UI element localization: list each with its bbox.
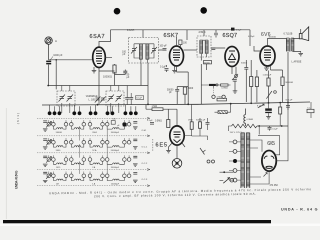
wire 6E5 down (169, 143, 186, 158)
wires V3 bottom area (246, 60, 257, 102)
svg-text:UNDA - R. 64 G: UNDA - R. 64 G (15, 170, 19, 189)
svg-text:1 MΩ: 1 MΩ (217, 97, 223, 99)
wire cathode resistor (268, 71, 270, 103)
tube V3 6SQ7 (225, 47, 239, 67)
wires gang area (62, 86, 131, 114)
bottom black bar (3, 220, 271, 223)
row 2 left ground (43, 147, 48, 149)
svg-text:(6/1): (6/1) (16, 113, 20, 125)
row 4 left capacitor (43, 172, 47, 174)
row 4 right ground (133, 180, 138, 182)
wires hatched resistor (215, 104, 231, 113)
row 2 wiper arrow (46, 139, 51, 145)
row 2 contact ticks (49, 138, 129, 141)
wire V1 cathode (94, 64, 125, 104)
row 1 right resistor box (111, 121, 115, 125)
tube V1 6SA7 (93, 47, 106, 67)
wire volume (232, 67, 236, 91)
wire mains in (220, 172, 234, 180)
row 4 left ground (43, 180, 48, 182)
ground under V1 (92, 71, 97, 73)
PU contact circle (216, 84, 218, 86)
svg-text:50000µF: 50000µF (111, 150, 120, 152)
wire IF2 to V3 (201, 48, 225, 105)
black blob component on top wire (231, 28, 235, 31)
tuning gang section 1 dashed box (57, 91, 75, 106)
svg-text:1.000 µF: 1.000 µF (263, 75, 272, 77)
svg-text:5400Ω: 5400Ω (56, 132, 63, 134)
IF1 secondary winding (146, 44, 149, 60)
resistor 1 Mohm PSU top (217, 98, 227, 101)
tube V2 6SK7 (170, 46, 184, 66)
B+ top wire (99, 30, 250, 47)
row 4 right capacitor (133, 173, 137, 175)
tube V5 6E5 (170, 126, 184, 145)
resistor 0.5M PU (221, 84, 228, 86)
pilot lamp (172, 159, 182, 169)
row 2 right ground (133, 147, 138, 149)
resistor 0.5 Mohm (167, 120, 170, 128)
resistor 1 Mohm horizontal 6E5 (152, 108, 163, 111)
svg-text:50000: 50000 (241, 63, 248, 65)
wire 6E5 grid (146, 104, 177, 125)
svg-text:6SA7: 6SA7 (90, 34, 105, 40)
svg-text:30000µF: 30000µF (111, 167, 120, 169)
transformer primary winding (241, 133, 244, 188)
wire V4 plate to OT (254, 39, 287, 52)
svg-text:500 pF: 500 pF (286, 100, 293, 102)
svg-text:110 V. 125 V.: 110 V. 125 V. (230, 132, 243, 134)
gang1 variable capacitor b (67, 95, 74, 102)
svg-text:52 A: 52 A (92, 149, 97, 152)
IF1 internal wires (134, 44, 154, 63)
wire V4 cathode (267, 66, 283, 102)
primary tap circles (233, 140, 237, 182)
switch row 3 contacts (47, 158, 131, 162)
row 2 coil brackets (53, 144, 124, 147)
row 3 left capacitor (43, 156, 47, 158)
resistor 50000 box (204, 61, 212, 64)
row 3 wiper arrow (46, 157, 51, 163)
row 1 right cap and ground (133, 122, 138, 130)
ground bus wire (42, 102, 310, 105)
ground volume (233, 91, 238, 93)
resistor 250000 (250, 77, 253, 87)
switch arrow below 6X5 (264, 173, 268, 177)
node B+ rail junctions (258, 125, 282, 127)
row 3 pair wire (50, 159, 52, 161)
wires 6X5 (250, 102, 288, 184)
node antenna bus (47, 85, 49, 87)
row 3 left ground (43, 164, 48, 166)
speaker (299, 27, 308, 41)
B+ rail zigzag resistor (232, 124, 258, 128)
ground under V2 (172, 71, 177, 73)
svg-text:0.5µF: 0.5µF (236, 30, 242, 32)
svg-text:10000Ω: 10000Ω (103, 76, 112, 79)
capacitor 0.1uF V2 (165, 69, 169, 71)
svg-text:1MΩ: 1MΩ (188, 120, 193, 122)
capacitor 50uF cathode (123, 71, 127, 73)
svg-text:O.C.1: O.C.1 (142, 147, 148, 149)
phono jacks (207, 160, 215, 163)
padder trimmer a (95, 97, 101, 103)
ground left 6E5 (166, 151, 171, 153)
capacitor IF2 out (211, 48, 215, 50)
row 4 contact ticks (49, 172, 129, 175)
node bus junctions (97, 102, 289, 106)
fuse box top right (307, 109, 314, 112)
row 2 right capacitor (133, 139, 137, 141)
row 3 coil brackets (53, 161, 124, 164)
electrolytic capacitor 8uF (265, 108, 272, 113)
IF transformer 1 dashed box (129, 38, 159, 64)
page fold line left (5, 108, 7, 219)
svg-text:0.1µF: 0.1µF (160, 67, 167, 69)
wire drop IF2 (187, 30, 204, 40)
gang2 variable capacitor b (116, 95, 123, 102)
switch row 4 contacts (47, 174, 131, 178)
svg-text:0.25µF: 0.25µF (248, 36, 255, 38)
switch row 1 contacts (47, 123, 131, 127)
svg-text:6V6: 6V6 (261, 32, 271, 38)
wires psu top (280, 102, 311, 126)
gang1 variable capacitor a (59, 95, 66, 102)
resistor right 6E5 b (199, 122, 202, 129)
svg-text:5000: 5000 (188, 88, 194, 90)
wire IF1 secondary down (141, 63, 148, 104)
capacitor volume (233, 80, 237, 82)
mains switch contact circle (230, 178, 234, 182)
tuning gang section 2 dashed box (106, 91, 124, 106)
primary tap filled (233, 159, 237, 163)
row 1 coil brackets (53, 126, 124, 129)
capacitor 1000pF antenna (46, 61, 51, 65)
power transformer core (245, 133, 247, 189)
capacitor 500pF psu (286, 106, 290, 108)
ground under V4 (264, 68, 269, 70)
white margin bottom (0, 224, 320, 227)
punch hole dot right (200, 7, 207, 14)
wire 8uF (268, 103, 270, 117)
svg-text:50000: 50000 (204, 62, 211, 64)
svg-text:0.1µF: 0.1µF (147, 120, 153, 122)
svg-text:10000µF: 10000µF (111, 183, 120, 185)
resistor 1 Mohm right 6E5 (190, 122, 193, 130)
capacitor 0.1uF 6E5 (150, 123, 154, 125)
wire PU (201, 85, 230, 88)
capacitor right 6E5 (206, 123, 210, 125)
svg-text:0.5MΩ: 0.5MΩ (221, 88, 228, 90)
coupling capacitor black PU (209, 84, 216, 86)
small box on top wire 0.1uF (214, 30, 218, 38)
svg-text:0.1µF: 0.1µF (272, 128, 278, 130)
resistor cathode 6V6 (267, 78, 270, 86)
row 1 right black capacitor (123, 123, 127, 126)
row 4 wiper arrow (46, 173, 51, 179)
row 4 coils (56, 179, 119, 180)
svg-text:1 MΩ: 1 MΩ (152, 106, 158, 108)
IF2 internal wires (200, 40, 208, 57)
svg-text:6SK7: 6SK7 (164, 33, 179, 39)
volume potentiometer (232, 74, 238, 80)
svg-text:A: A (55, 39, 57, 43)
B+ rail wire (257, 125, 288, 127)
resistor 500000 (255, 77, 258, 87)
row 3 contact ticks (49, 155, 129, 158)
antenna A (45, 37, 52, 60)
svg-text:30000µF: 30000µF (111, 132, 120, 134)
wire V1 plate to IF1 (99, 57, 112, 71)
mains switch arrow (223, 179, 228, 183)
filter choke (244, 109, 246, 127)
capacitor coupling V3-V4 (244, 68, 248, 70)
svg-text:L.AP.65E: L.AP.65E (292, 60, 302, 63)
output transformer 6.7L10B (286, 38, 294, 52)
wire V2 top (177, 37, 181, 48)
mains switch arrowhead (227, 177, 230, 180)
node grid junction (55, 59, 57, 61)
resistor PSU vertical (279, 107, 282, 114)
svg-text:O.M.: O.M. (142, 130, 147, 132)
label box 10uF on bus (136, 96, 144, 100)
svg-text:L. 185: L. 185 (89, 99, 96, 101)
wire OT to speaker (288, 29, 301, 102)
svg-text:474 952: 474 952 (270, 185, 279, 187)
row 1 coils (56, 128, 119, 129)
wire drop IF1 (142, 30, 144, 38)
svg-text:O.C.3: O.C.3 (142, 179, 148, 181)
potentiometer wiper on bus (258, 104, 264, 108)
IF1 primary winding (139, 44, 142, 60)
stubs above matrix dots (50, 105, 136, 112)
svg-text:30000Ω: 30000Ω (285, 82, 293, 84)
row 1 contact ticks (49, 120, 129, 123)
wire rail to transformer (229, 126, 260, 135)
PU dashed link (213, 88, 215, 95)
wire V2 cathode (167, 65, 189, 104)
row 4 pair wire (50, 175, 52, 177)
row 1 left capacitor (43, 121, 47, 123)
row 4 coil brackets (53, 177, 124, 180)
svg-text:2ªM.F.: 2ªM.F. (199, 30, 207, 34)
svg-text:100 pF: 100 pF (160, 46, 168, 48)
resistor 30000 cathode V4 (281, 77, 284, 86)
padder trimmer b (100, 97, 106, 103)
row 2 coils (56, 146, 119, 147)
phono switch arrow (200, 148, 206, 155)
hatched resistor box PSU (218, 111, 227, 114)
svg-text:O.C.2: O.C.2 (142, 163, 148, 165)
wire IF1 to 6SK7 grid (159, 49, 167, 51)
padder capacitors right of gang2 (125, 98, 133, 100)
svg-text:50000 pF: 50000 pF (196, 120, 206, 122)
resistor 100 screen (179, 40, 182, 45)
svg-text:6SQ7: 6SQ7 (223, 33, 238, 39)
ground speaker (298, 54, 303, 56)
resistor 5000 ohm (183, 87, 186, 94)
wires taps (229, 142, 241, 180)
row 3 coils (56, 163, 119, 164)
row 3 right ground (133, 164, 138, 166)
mechanical link dashed 6E5 (152, 139, 154, 152)
switch matrix top dots (48, 111, 138, 115)
capacitor 0.1uF on rail (268, 126, 272, 131)
capacitor 100pF grid V2 (163, 49, 167, 51)
switch matrix dashed separators (37, 118, 150, 185)
IF2 primary winding (200, 40, 203, 53)
punch hole dot left (114, 8, 121, 15)
PU jack contacts (212, 95, 226, 98)
svg-text:0.5MΩ: 0.5MΩ (247, 119, 254, 121)
IF1 trimmer left (131, 47, 137, 54)
row 1 wiper arrow (46, 121, 51, 127)
gang2 variable capacitor a (108, 95, 115, 102)
wire drop 6V6 screen (249, 30, 251, 46)
IF transformer 2 dashed box (197, 36, 211, 57)
row 1 left ground (43, 129, 48, 131)
transformer secondary winding (247, 133, 250, 188)
AVC bus wire (48, 85, 148, 87)
matrix inter-row wires (80, 126, 108, 174)
row 2 left capacitor (43, 139, 47, 141)
row 3 right capacitor (133, 156, 137, 158)
wire antenna to V1 grid (48, 60, 92, 90)
node mains junction (223, 171, 225, 173)
svg-text:0.5MΩ: 0.5MΩ (155, 120, 162, 122)
ground under 8uF (266, 117, 271, 119)
svg-text:1ªM.F.: 1ªM.F. (127, 28, 135, 32)
svg-text:UNDA - R. 64 G: UNDA - R. 64 G (281, 208, 318, 212)
wire antenna to AVC bus (47, 65, 49, 86)
IF2 secondary winding (205, 40, 208, 53)
svg-text:10 µF: 10 µF (136, 98, 142, 100)
tube V6 6X5 (262, 151, 276, 172)
row 1 pair wire (50, 123, 52, 125)
svg-text:1000 pF: 1000 pF (53, 54, 63, 57)
tube V4 6V6 (260, 46, 275, 66)
row 2 pair wire (50, 141, 52, 143)
switch row 2 contacts (47, 141, 131, 145)
wires right 6E5 (184, 104, 207, 140)
svg-text:6.7L10B: 6.7L10B (284, 32, 293, 35)
resistor 10000 ohm (113, 65, 116, 73)
wire 6SK7 plate to IF2 (184, 49, 198, 51)
IF1 trimmer right (151, 47, 157, 54)
svg-text:8 µF: 8 µF (257, 106, 262, 108)
svg-text:6E5: 6E5 (156, 142, 168, 148)
tone pot arrow (266, 91, 276, 99)
capacitor 50000pF (175, 89, 179, 91)
svg-text:6X5: 6X5 (267, 141, 275, 147)
